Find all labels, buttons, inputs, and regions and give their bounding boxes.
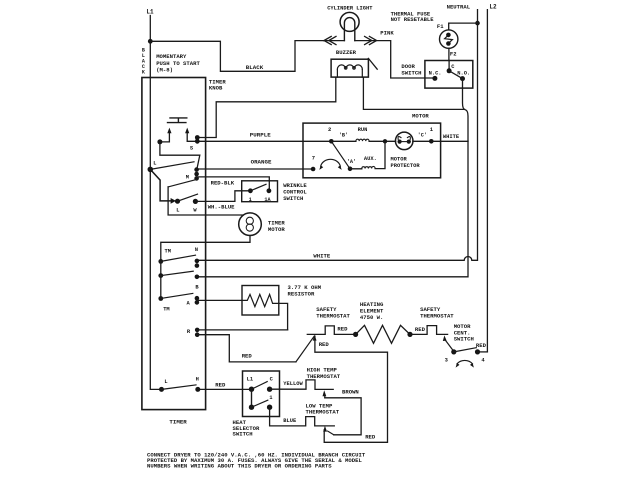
svg-text:NUMBERS WHEN WRITING ABOUT THI: NUMBERS WHEN WRITING ABOUT THIS DRYER OR… xyxy=(147,463,332,470)
wire door switch C lead xyxy=(448,61,450,71)
svg-text:B: B xyxy=(195,284,199,290)
svg-text:NEUTRAL: NEUTRAL xyxy=(447,3,471,10)
svg-text:RED: RED xyxy=(337,325,348,332)
switch blade timer motor tap to M xyxy=(168,179,197,187)
svg-text:L2: L2 xyxy=(489,3,497,10)
label THERMAL FUSE NOT RESETABLE xyxy=(391,10,435,23)
label SAFETY THERMOSTAT left xyxy=(316,306,350,320)
label BLACK vertical xyxy=(142,48,145,76)
node run-protector junction xyxy=(383,139,387,143)
svg-text:1: 1 xyxy=(430,126,434,133)
svg-text:WH.-BLUE: WH.-BLUE xyxy=(208,203,235,210)
lamp cylinder light outer circle xyxy=(340,12,359,31)
wire buzzer left terminal to timer S xyxy=(197,77,335,137)
switch blade cycling thermostat xyxy=(296,336,314,362)
label connection note text xyxy=(147,452,366,470)
wire BLUE heat selector 1 to low temp thermostat xyxy=(270,407,335,426)
svg-text:H: H xyxy=(196,377,199,383)
wire aux winding segments xyxy=(350,141,385,169)
node timer B terminal xyxy=(195,275,200,280)
switch blade L pivot to lower L contact with arrow xyxy=(150,169,172,201)
node push switch left contact xyxy=(157,139,162,144)
node L pivot xyxy=(148,167,154,173)
switch blade wrinkle 1 xyxy=(250,184,266,191)
node wrinkle contact 1A xyxy=(267,188,272,193)
svg-text:W: W xyxy=(193,208,197,214)
wrinkle control switch box xyxy=(242,181,278,202)
svg-text:7: 7 xyxy=(312,155,315,162)
svg-text:3: 3 xyxy=(445,356,449,363)
svg-text:F2: F2 xyxy=(450,50,457,57)
svg-text:L: L xyxy=(153,160,156,166)
svg-text:AUX.: AUX. xyxy=(364,156,377,162)
fuse F1 thermal fuse circle xyxy=(440,30,458,48)
svg-text:CYLINDER LIGHT: CYLINDER LIGHT xyxy=(327,5,373,11)
node heating element left xyxy=(353,332,358,337)
buzzer box xyxy=(331,59,368,77)
label HEAT SELECTOR SWITCH xyxy=(233,419,260,438)
label WRINKLE CONTROL SWITCH xyxy=(283,182,307,202)
switch arrow low temp thermostat xyxy=(328,431,334,435)
wire timer A to resistor xyxy=(197,299,242,301)
svg-text:RED: RED xyxy=(242,353,253,360)
label TIMER MOTOR xyxy=(268,219,285,233)
node motor pin 2 xyxy=(329,139,334,144)
timer assembly box xyxy=(142,78,206,410)
wire TM2 to TM3 xyxy=(160,276,162,299)
wire timer motor tap to timer motor xyxy=(168,187,243,215)
svg-text:N: N xyxy=(195,247,198,253)
run winding coil xyxy=(356,139,369,141)
svg-text:RED: RED xyxy=(415,326,426,333)
label TIMER KNOB xyxy=(209,79,226,92)
node motor pin 7 xyxy=(311,167,316,172)
wire contact 4 to L2 xyxy=(478,351,488,353)
svg-text:'C': 'C' xyxy=(418,132,427,138)
motor switch box xyxy=(303,123,441,178)
svg-text:F1: F1 xyxy=(437,23,444,30)
svg-text:K: K xyxy=(142,70,145,76)
push to start plunger xyxy=(168,118,187,123)
wire F1 top lead to neutral xyxy=(449,23,478,30)
wire lamp left lead xyxy=(324,40,345,42)
node timer R terminals xyxy=(195,328,200,333)
node motor cent contact 3 xyxy=(451,349,456,354)
svg-text:N.C.: N.C. xyxy=(429,71,442,77)
switch blade door C to N.O. xyxy=(449,71,462,79)
wire TM1 to TM2 xyxy=(160,261,162,275)
wire door N.O. down joining motor feed then to timer B xyxy=(197,79,468,277)
wire PURPLE timer S to motor pin 2 xyxy=(197,140,331,142)
node heat selector L1 xyxy=(249,387,254,392)
svg-text:'A': 'A' xyxy=(347,159,356,165)
label MOTOR CENT. SWITCH xyxy=(454,323,474,342)
svg-text:RUN: RUN xyxy=(358,127,368,133)
svg-text:RED: RED xyxy=(365,433,376,440)
svg-text:M: M xyxy=(186,174,189,180)
svg-text:R: R xyxy=(187,329,191,335)
svg-text:WHITE: WHITE xyxy=(313,252,330,259)
svg-text:RED: RED xyxy=(215,381,226,388)
svg-text:S: S xyxy=(190,146,194,152)
node motor pin 1 xyxy=(429,139,434,144)
node door switch N.O. xyxy=(460,76,465,81)
motor switch arc with arrows xyxy=(321,159,341,166)
wire NEUTRAL vertical then WHITE to timer N with hop xyxy=(197,10,478,261)
svg-text:TIMER: TIMER xyxy=(169,418,187,425)
switch blade bottom L to H xyxy=(162,385,197,390)
door switch box xyxy=(425,61,473,89)
push switch left arrow contact xyxy=(162,132,169,142)
svg-text:N.O.: N.O. xyxy=(457,71,470,77)
aux winding coil xyxy=(362,166,375,168)
svg-text:PROTECTOR: PROTECTOR xyxy=(391,163,421,169)
node timer A terminals xyxy=(195,296,200,301)
wire BLACK from L1 to cylinder light xyxy=(150,41,323,72)
svg-text:SWITCH: SWITCH xyxy=(233,431,253,438)
label MOTOR PROTECTOR xyxy=(391,156,421,169)
node junction neutral-F1 xyxy=(475,21,480,26)
svg-text:WHITE: WHITE xyxy=(443,134,460,140)
label HEATING ELEMENT 4750 W. xyxy=(360,301,384,321)
node heating element right xyxy=(407,332,412,337)
svg-text:4750 W.: 4750 W. xyxy=(360,314,384,321)
wire WH.-BLUE W contact to wrinkle switch 1 xyxy=(195,191,250,202)
node timer S terminals xyxy=(195,135,200,140)
node timer lower L contact xyxy=(159,387,164,392)
svg-text:BUZZER: BUZZER xyxy=(336,49,357,56)
switch blade L1 to C xyxy=(252,382,268,390)
wire L2 vertical xyxy=(486,10,488,352)
svg-text:SWITCH: SWITCH xyxy=(401,69,421,76)
label HIGH TEMP THERMOSTAT xyxy=(307,367,341,381)
svg-text:(M-8): (M-8) xyxy=(156,67,173,74)
svg-text:RESISTOR: RESISTOR xyxy=(288,290,315,297)
wire resistor to R top wire xyxy=(279,303,288,330)
svg-text:L: L xyxy=(176,208,179,214)
svg-text:THERMOSTAT: THERMOSTAT xyxy=(316,313,350,320)
push switch right arrow contact xyxy=(187,132,195,142)
svg-text:SWITCH: SWITCH xyxy=(454,336,474,343)
wire timer motor return to TM contacts xyxy=(161,236,250,262)
heating element HTR1 zigzag xyxy=(356,325,410,343)
svg-text:1A: 1A xyxy=(264,197,271,203)
heat selector switch box xyxy=(243,371,280,417)
svg-text:MOTOR: MOTOR xyxy=(268,226,285,233)
node TM2 xyxy=(158,273,163,278)
wire YELLOW C to high temp thermostat xyxy=(270,380,334,390)
svg-text:MOTOR: MOTOR xyxy=(391,156,408,162)
svg-text:THERMOSTAT: THERMOSTAT xyxy=(306,408,340,415)
svg-text:TM: TM xyxy=(163,307,169,313)
fuse F1 internal element xyxy=(445,35,453,43)
wire left contact to M node xyxy=(160,142,200,169)
node timer H contact xyxy=(195,387,200,392)
wire to right safety thermostat bump xyxy=(410,326,448,335)
svg-text:L1: L1 xyxy=(247,376,253,382)
node motor cent contact 4 xyxy=(475,349,480,354)
label MOMENTARY PUSH TO START (M-8) xyxy=(156,53,200,74)
svg-text:BLACK: BLACK xyxy=(246,64,264,71)
label 3.77 K OHM RESISTOR xyxy=(288,284,322,298)
wire PINK lamp to door switch N.C. xyxy=(355,41,435,78)
node TM3 xyxy=(158,296,163,301)
node heat selector C xyxy=(267,387,272,392)
svg-text:PURPLE: PURPLE xyxy=(250,131,271,138)
svg-text:BLUE: BLUE xyxy=(283,418,297,424)
svg-text:THERMOSTAT: THERMOSTAT xyxy=(420,313,454,320)
node TM1 xyxy=(158,259,163,264)
wire L1 lead down xyxy=(149,16,151,42)
switch blade lower L to W xyxy=(178,194,198,201)
svg-text:ORANGE: ORANGE xyxy=(251,159,272,166)
switch blade TM1 to N xyxy=(161,255,196,261)
wire RED timer H to heat selector xyxy=(198,388,252,390)
wire RED-BLK timer M to wrinkle switch 1A xyxy=(197,177,270,191)
switch blade lower pole to 1 xyxy=(252,400,268,407)
node W contact xyxy=(193,199,198,204)
buzzer striker arm xyxy=(368,58,377,69)
motor cent switch arc with arrows xyxy=(457,360,473,363)
svg-text:MOTOR: MOTOR xyxy=(412,112,429,119)
node heat selector 1 xyxy=(267,405,272,410)
svg-text:2: 2 xyxy=(328,126,331,133)
wire F2 lead to door switch C xyxy=(448,48,450,60)
svg-text:C: C xyxy=(270,376,274,382)
svg-text:L: L xyxy=(164,379,167,385)
svg-text:BROWN: BROWN xyxy=(342,389,359,396)
wire BROWN high temp to low temp assembly xyxy=(325,398,361,435)
switch blade TM3 to A xyxy=(161,293,193,298)
node motor pin A xyxy=(348,167,353,172)
svg-text:A: A xyxy=(187,300,191,306)
node timer N terminals xyxy=(195,259,200,264)
switch blade 3 to 4 xyxy=(454,348,477,352)
switch blade motor 2 to A xyxy=(331,141,350,169)
node wrinkle contact 1 xyxy=(248,188,253,193)
svg-text:NOT RESETABLE: NOT RESETABLE xyxy=(391,16,435,23)
node door switch C xyxy=(447,68,452,73)
svg-text:1: 1 xyxy=(249,197,252,203)
label DOOR SWITCH xyxy=(401,63,421,77)
wire L1 pole link xyxy=(251,389,253,407)
svg-text:RED: RED xyxy=(476,342,487,349)
svg-text:PINK: PINK xyxy=(380,29,394,36)
node heat selector lower pole xyxy=(249,405,254,410)
wire timer R top xyxy=(197,329,287,331)
switch blade TM2 to B xyxy=(161,271,193,275)
svg-text:THERMOSTAT: THERMOSTAT xyxy=(307,373,341,380)
node door switch N.C. xyxy=(432,76,437,81)
label LOW TEMP THERMOSTAT xyxy=(306,403,340,416)
svg-text:'B': 'B' xyxy=(339,132,348,138)
wire timer R bottom to thermostat blade xyxy=(197,335,296,362)
svg-text:4: 4 xyxy=(481,357,485,364)
wire ORANGE timer M to motor pin 7 xyxy=(197,168,314,170)
buzzer coil xyxy=(337,65,362,69)
svg-text:TM: TM xyxy=(165,248,171,254)
label SAFETY THERMOSTAT right xyxy=(420,306,454,320)
connector chevrons left xyxy=(324,36,336,44)
svg-text:KNOB: KNOB xyxy=(209,84,223,91)
wire heater row with safety thermostat bump xyxy=(307,326,355,335)
wire buzzer right terminal to door switch N.O. net xyxy=(363,77,464,109)
lamp filament loop xyxy=(344,18,354,41)
switch arrow high temp thermostat xyxy=(324,396,326,398)
svg-text:1: 1 xyxy=(269,395,272,401)
svg-text:YELLOW: YELLOW xyxy=(283,381,303,387)
node lower L contact xyxy=(175,199,180,204)
node timer M terminals xyxy=(194,167,199,172)
switch blade L to M xyxy=(150,162,194,170)
wire run winding segment xyxy=(331,140,431,142)
svg-text:RED: RED xyxy=(319,341,330,348)
resistor R1 zigzag xyxy=(242,294,279,306)
connector chevrons right xyxy=(365,36,377,44)
wire WHITE motor pin1 to door switch net xyxy=(431,140,468,142)
motor protector contacts xyxy=(398,140,402,144)
svg-text:L1: L1 xyxy=(146,9,154,16)
node junction L1 xyxy=(148,39,153,44)
wire L1 line inside timer to lower L contact xyxy=(150,41,161,389)
svg-text:RED-BLK: RED-BLK xyxy=(211,179,235,186)
switch arrow into motor cent contact 3 xyxy=(446,341,454,352)
resistor box xyxy=(242,286,279,316)
svg-text:SWITCH: SWITCH xyxy=(283,195,303,202)
svg-text:C: C xyxy=(451,64,455,70)
wire RED tap to low temp return xyxy=(315,336,388,442)
motor protector circle U3 xyxy=(395,132,413,150)
timer motor M2 circle xyxy=(239,213,262,236)
